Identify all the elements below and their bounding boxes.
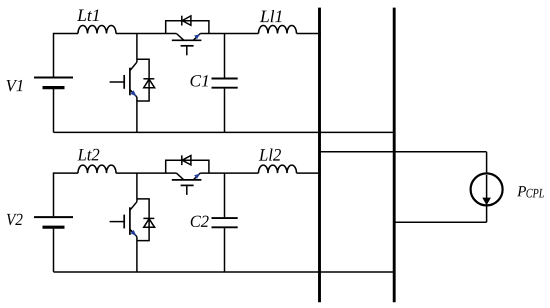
wire [136,237,138,272]
label Ll1 [260,10,282,22]
capacitor C2 [212,173,238,272]
wire [297,172,321,174]
wire CPL bottom drop [486,205,488,222]
diode D2b [143,218,154,227]
wire diode loop Q2b [137,199,149,241]
wire diode loop Q1b [137,59,149,101]
label Ll2 [259,148,281,160]
inductor Lt2 [78,165,116,173]
inductor Ll2 [259,165,297,173]
wire [297,33,321,35]
label C1 [190,75,207,86]
battery V2 short plate [43,226,65,229]
transistor Q1b (lower IGBT) [110,62,137,97]
wire bottom rail [54,131,395,133]
node DC bus positive rail [318,8,321,303]
battery V2 long plate [34,216,73,218]
wire CPL top drop [486,152,488,174]
wire [136,173,138,202]
label Lt2 [77,149,99,161]
diode D1b [143,79,154,88]
capacitor C1 [212,34,238,133]
wire diode loop Q1a [166,21,209,34]
label V1 [6,80,22,91]
label V2 [7,214,23,226]
wire [53,89,55,132]
current source P_CPL [471,173,503,205]
wire [54,173,79,216]
wire [200,33,258,35]
node DC bus negative rail [393,8,396,303]
wire [136,34,138,63]
transistor Q1a (upper IGBT) [172,34,202,56]
inductor Lt1 [78,26,116,34]
wire CPL bottom to bus2 [394,221,486,223]
label Lt1 [77,9,99,21]
wire [200,172,258,174]
wire diode loop Q2a [166,160,209,173]
wire [53,229,55,272]
label P_CPL [517,186,526,196]
wire [116,172,176,174]
wire bottom rail [54,271,395,273]
inductor Ll1 [259,26,297,34]
diode D1a [182,16,191,26]
wire [136,97,138,132]
wire [54,34,79,77]
transistor Q2b (lower IGBT) [110,202,137,237]
wire bus1 to CPL top [320,151,487,153]
label C2 [191,216,209,227]
wire [116,33,176,35]
battery V1 short plate [43,86,65,89]
transistor Q2a (upper IGBT) [172,173,202,195]
battery V1 long plate [34,77,73,79]
diode D2a [182,155,191,165]
